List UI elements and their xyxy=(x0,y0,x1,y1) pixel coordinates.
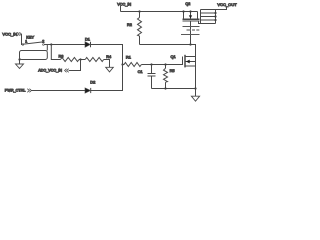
port ADC_VCC_IN xyxy=(38,69,68,73)
pin/net text row above bar xyxy=(187,29,200,31)
svg-text:Q1: Q1 xyxy=(171,54,176,59)
node box bottom-left xyxy=(18,58,20,60)
node C1 top xyxy=(150,63,152,65)
net label bar on gate net xyxy=(181,34,200,36)
resistor R1 xyxy=(123,54,142,66)
wire to ground xyxy=(19,60,21,65)
node R5 top xyxy=(164,63,166,65)
node D1 tap xyxy=(50,43,52,45)
wire stub down to component box xyxy=(46,45,48,51)
net VCC_IN (top) xyxy=(117,3,131,7)
lower plate bar of Q2 xyxy=(183,26,200,28)
svg-text:ADC_VCC_IN: ADC_VCC_IN xyxy=(38,69,62,73)
svg-text:R5: R5 xyxy=(170,68,175,73)
svg-text:VCC_IN: VCC_IN xyxy=(117,3,131,7)
ground (middle) xyxy=(106,67,114,72)
wire top rail xyxy=(121,11,198,13)
svg-text:KEY: KEY xyxy=(26,35,34,40)
port PWR_CTRL xyxy=(5,89,32,93)
node ADC tap xyxy=(79,58,81,60)
wire D1 cathode right then down xyxy=(91,45,123,65)
ground (left) xyxy=(16,64,24,68)
wire R2 bottom to corner xyxy=(139,36,141,45)
wire R4 to ground xyxy=(104,60,110,68)
node ladder pin4 xyxy=(214,19,216,21)
wire to D1 anode xyxy=(51,44,85,46)
resistor R2 xyxy=(127,12,142,37)
svg-text:D1: D1 xyxy=(85,37,90,42)
resistor R4 xyxy=(85,54,112,61)
transistor Q1 xyxy=(171,54,196,67)
transistor Q2 xyxy=(183,2,200,21)
diode D1 xyxy=(85,37,91,48)
wire R2 run to Q1 drain riser xyxy=(140,45,196,57)
svg-text:R2: R2 xyxy=(127,22,132,27)
port VCC_OUT xyxy=(217,2,237,7)
switch S1 KEY xyxy=(22,35,44,46)
wire switch pin2 to corner xyxy=(44,44,51,46)
wire PWR_CTRL to D2 xyxy=(31,90,85,92)
wire Q2 gate vertical xyxy=(190,21,192,45)
svg-text:PWR_CTRL: PWR_CTRL xyxy=(5,89,26,93)
wire ground bus xyxy=(152,88,196,90)
node Q2 gate tap xyxy=(189,43,191,45)
wire divider feed down xyxy=(51,45,60,60)
node Q2 stub1 xyxy=(182,10,184,12)
port VCC_IN (left) xyxy=(2,32,21,37)
svg-text:C1: C1 xyxy=(138,69,143,74)
resistor R5 xyxy=(164,65,175,89)
node R5 bottom xyxy=(164,87,166,89)
wire ADC tap down-left xyxy=(69,60,81,71)
component box (rounded body) xyxy=(20,51,48,60)
node R2 top xyxy=(138,10,140,12)
svg-text:1: 1 xyxy=(25,39,27,43)
svg-text:2: 2 xyxy=(42,39,44,43)
wire ladder to VCC_OUT xyxy=(216,6,227,9)
node ladder pin2 xyxy=(214,12,216,14)
wire VCC_IN drop xyxy=(120,6,122,12)
wire R1 to Q1 gate xyxy=(141,64,182,66)
wire VCC_IN to switch pin 1 xyxy=(21,34,24,45)
wire R3 to R4 xyxy=(79,59,85,61)
node Q2 stub2 xyxy=(189,10,191,12)
svg-text:Q2: Q2 xyxy=(185,2,190,6)
wire Q1 source down xyxy=(195,66,197,96)
node ground bus right xyxy=(194,87,196,89)
node ladder pin3 xyxy=(214,15,216,17)
diode D2 xyxy=(85,80,95,94)
svg-text:VCC_IN: VCC_IN xyxy=(2,32,17,37)
svg-text:VCC_OUT: VCC_OUT xyxy=(217,2,237,7)
svg-text:R1: R1 xyxy=(126,54,131,59)
resistor R3 xyxy=(59,54,80,62)
Q2 drain ladder xyxy=(199,10,216,24)
capacitor C1 xyxy=(138,65,156,89)
wire D2 cathode right and up xyxy=(91,65,123,91)
ground (right) xyxy=(191,96,199,101)
node R1 left xyxy=(121,63,123,65)
svg-text:D2: D2 xyxy=(90,80,95,85)
svg-text:R4: R4 xyxy=(106,54,112,59)
